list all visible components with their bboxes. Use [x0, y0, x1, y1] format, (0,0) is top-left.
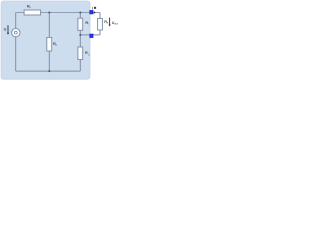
- svg-text:a: a: [107, 22, 109, 25]
- svg-text:aus: aus: [114, 23, 119, 26]
- svg-text:I: I: [92, 7, 93, 11]
- svg-text:U: U: [4, 28, 7, 32]
